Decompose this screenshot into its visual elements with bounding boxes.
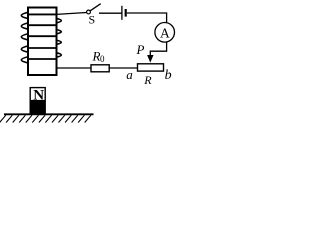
label R [143,73,152,87]
ground hatching [0,115,91,122]
svg-text:a: a [126,67,133,82]
coil right hook 4 [56,53,61,58]
coil left loop 4 [21,46,28,52]
svg-text:P: P [136,42,145,57]
bar magnet S pole (black) [30,101,46,114]
coil winding turn 1 front wire [28,13,57,15]
battery short thick plate [125,9,127,17]
coil right hook 2 [56,30,61,34]
bar magnet N pole (white) [30,88,45,104]
wire battery to ammeter corner [127,13,167,23]
switch S blade [90,4,101,11]
label R0 [92,49,106,65]
coil winding turn 5 front wire [28,58,57,60]
wire coil top to switch [57,13,87,15]
coil winding turn 3 front wire [28,35,57,37]
electromagnet coil core [28,8,57,76]
wire ammeter down and left to slider [150,42,166,55]
label a [126,67,133,82]
coil right hook 3 [56,40,61,44]
svg-text:b: b [165,68,172,83]
coil left loop 3 [21,34,28,40]
ammeter A [155,23,175,43]
coil left loop 2 [21,23,28,29]
svg-text:R: R [143,73,152,87]
coil left loop 1 [21,12,28,18]
switch S pivot [87,10,91,14]
slider P arrow [147,55,153,63]
wire coil bottom to R0 [57,67,92,69]
label b [165,68,172,83]
svg-text:0: 0 [100,54,105,64]
label S [89,12,96,26]
coil right hook 1 [56,18,61,23]
coil left loop 5 [21,57,28,63]
svg-text:S: S [89,12,96,26]
label P [136,42,145,57]
wire R0 to rheostat [109,67,137,69]
coil winding turn 4 front wire [28,47,57,49]
rheostat R body [138,64,164,71]
battery long plate [121,6,123,20]
svg-text:A: A [160,25,170,40]
ground line [4,113,94,115]
resistor R0 [91,65,109,72]
coil winding turn 2 front wire [28,24,57,26]
wire switch to battery [99,12,122,14]
